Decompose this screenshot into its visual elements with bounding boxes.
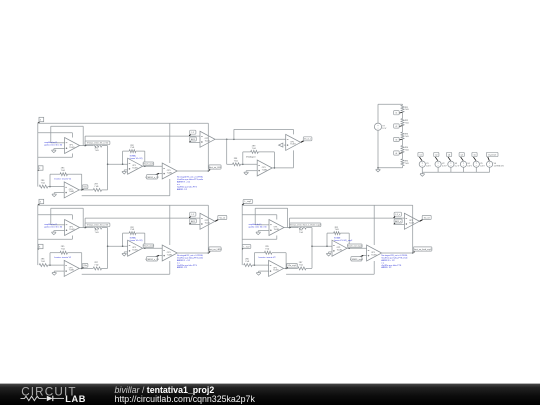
resistor R12	[93, 226, 102, 229]
wire A3 fb left	[254, 208, 256, 225]
op-amp OP13	[269, 220, 284, 236]
wire top rail	[38, 122, 209, 124]
svg-text:7 kΩ: 7 kΩ	[130, 147, 135, 149]
svg-text:TL081: TL081	[132, 250, 137, 252]
wire ladder seg5	[402, 153, 404, 159]
resistor R33	[298, 267, 306, 270]
wire R3 to sum	[102, 189, 108, 191]
wire C plus	[54, 192, 64, 194]
wire A2 plus	[54, 230, 65, 232]
net label V2o2	[82, 263, 88, 268]
wire left rail	[37, 123, 39, 186]
resistor RL5	[401, 159, 404, 166]
wire U43 supply rail	[412, 205, 414, 253]
logo resistor squiggle	[21, 396, 47, 400]
ground GND super	[244, 171, 249, 175]
wire sum tap 2	[108, 245, 128, 247]
wire U5 V- a	[169, 179, 171, 196]
svg-text:7 kΩ: 7 kΩ	[265, 248, 270, 250]
wire A3 Vminus stub	[276, 236, 278, 240]
ground GND A3	[256, 231, 261, 235]
wire U4 plus	[190, 141, 201, 143]
svg-text:7 kΩ: 7 kΩ	[405, 150, 410, 152]
wire C3 fb top a	[254, 252, 264, 254]
wire B fb left	[122, 151, 124, 164]
wire C3 out	[284, 267, 298, 269]
junction sum 2	[107, 245, 109, 247]
net label flag s3	[447, 152, 452, 160]
svg-text:Vmeas_entre_Vout_e_Vout2_sup2: Vmeas_entre_Vout_e_Vout2_sup2	[290, 224, 322, 227]
wire V+ feed A2	[38, 214, 73, 216]
wire C3 fb top b	[272, 252, 286, 254]
wire C3 fb left	[253, 253, 255, 265]
annotation note big2	[177, 254, 204, 269]
op-amp OP12	[65, 220, 80, 236]
net label L_MES2	[145, 255, 159, 261]
ground GND B	[122, 170, 127, 174]
wire sum tap	[108, 163, 128, 165]
ground GND A2	[52, 231, 57, 235]
svg-text:TL081: TL081	[167, 172, 172, 174]
wire A Vminus stub	[71, 154, 73, 158]
junction C2 out	[81, 268, 83, 270]
junction C3 in	[254, 264, 256, 266]
wire B3 fb left	[326, 233, 328, 246]
wire A inv input	[51, 142, 65, 144]
wire ladder seg2	[402, 112, 404, 118]
wire s2 top	[437, 160, 439, 162]
junction C in	[49, 186, 51, 188]
resistor Rin2	[39, 264, 48, 267]
wire V7 top	[377, 104, 379, 123]
svg-text:LAB: LAB	[65, 394, 86, 404]
op-amp OP4	[200, 131, 215, 147]
wire U4 out to U6	[215, 138, 286, 140]
wire U5 out	[177, 170, 208, 172]
svg-text:L_MES1_e_V3: L_MES1_e_V3	[145, 259, 159, 261]
op-amp OP23	[332, 240, 347, 256]
svg-text:7 kΩ: 7 kΩ	[299, 265, 304, 267]
svg-text:7 kΩ: 7 kΩ	[95, 232, 100, 234]
svg-text:ABRIR: 1/2: ABRIR: 1/2	[177, 266, 188, 269]
wire A3 out	[284, 227, 298, 229]
junction A3 out	[289, 227, 291, 229]
svg-text:7 kΩ: 7 kΩ	[234, 160, 239, 162]
annotation note big	[177, 176, 204, 191]
svg-text:7 kΩ: 7 kΩ	[335, 229, 340, 231]
wire A2 inv input	[51, 224, 65, 226]
wire sum rail 2	[107, 228, 109, 269]
wire V7 bottom	[377, 130, 379, 168]
svg-text:7 kΩ: 7 kΩ	[245, 261, 250, 263]
wire C3 plus	[259, 270, 269, 272]
wire B3 fb top b	[340, 232, 349, 234]
wire s2 bottom	[437, 168, 439, 173]
wire s6 bottom	[489, 168, 491, 173]
junction C out	[81, 189, 83, 191]
junction B3 in	[326, 245, 328, 247]
wire B2 fb top b	[136, 232, 145, 234]
svg-text:7 kΩ: 7 kΩ	[130, 229, 135, 231]
wire A2 fb right	[82, 208, 84, 227]
svg-text:7 kΩ: 7 kΩ	[41, 261, 46, 263]
wire super input drop	[226, 139, 228, 164]
wire ladder bottom	[378, 167, 403, 169]
wire U53 out	[382, 252, 413, 254]
svg-text:Vo_s2: Vo_s2	[220, 217, 226, 219]
net label flagL1	[189, 130, 196, 136]
resistor R1	[93, 144, 102, 147]
svg-text:Vmidsuper: Vmidsuper	[246, 157, 256, 159]
svg-text:Vsum_out2: Vsum_out2	[143, 244, 154, 247]
svg-text:7 kΩ: 7 kΩ	[252, 148, 257, 150]
svg-text:TL081: TL081	[205, 223, 210, 225]
svg-text:TL081: TL081	[274, 229, 279, 231]
wire sum tap 3	[312, 245, 332, 247]
junction A2 out	[84, 227, 86, 229]
svg-text:7 kΩ: 7 kΩ	[405, 163, 410, 165]
svg-text:ABRIR: 1/2: ABRIR: 1/2	[177, 188, 188, 191]
wire U52 V+	[169, 205, 171, 245]
net label Vout3	[413, 247, 432, 253]
svg-text:TL081: TL081	[337, 250, 342, 252]
wire R33 to sum	[306, 267, 312, 269]
wire super fb right	[273, 152, 275, 168]
svg-text:Vout_no_load_sup2: Vout_no_load_sup2	[414, 248, 433, 251]
wire U42 plus	[190, 223, 201, 225]
svg-text:ganho entre 30 e 30: ganho entre 30 e 30	[249, 226, 268, 229]
wire top rail 2	[38, 204, 209, 206]
wire A plus	[54, 148, 65, 150]
op-amp OP32	[162, 245, 177, 261]
resistor RF	[129, 150, 136, 153]
wire B fb right	[144, 151, 146, 166]
wire A up	[84, 136, 86, 146]
net label flag s5	[472, 152, 477, 160]
net label Vsum	[143, 162, 154, 166]
resistor RF2	[129, 232, 136, 235]
wire A2 Vminus return	[38, 238, 73, 240]
svg-text:Vo_s3: Vo_s3	[424, 217, 430, 219]
op-amp OP3	[162, 163, 177, 179]
wire s1 bottom	[421, 168, 423, 173]
wire B3 plus	[329, 251, 332, 253]
wire A Vminus return	[38, 156, 73, 158]
resistor Rf2	[60, 251, 68, 254]
resistor Rb	[251, 150, 259, 153]
svg-text:1.29936 mV: 1.29936 mV	[494, 165, 505, 167]
svg-text:TL081: TL081	[69, 147, 74, 149]
wire C2 plus	[54, 270, 64, 272]
net label Vmeas2	[85, 223, 110, 227]
net label Vmeas3	[290, 223, 322, 227]
junction B2 out	[144, 247, 146, 249]
net label Vsum2	[143, 244, 154, 248]
net label flagL12	[189, 212, 196, 218]
wire B fb top a	[123, 150, 130, 152]
net label flagAR3	[394, 219, 402, 224]
wire C2 fb top a	[50, 252, 60, 254]
wire A2 fb top	[51, 207, 83, 209]
svg-text:TL081: TL081	[167, 254, 172, 256]
svg-text:7 kΩ: 7 kΩ	[405, 136, 410, 138]
input port arrow	[279, 143, 283, 147]
voltage source V1 src	[419, 161, 431, 167]
net label flag IN3	[242, 200, 253, 206]
wire U52 out	[177, 252, 208, 254]
wire C fb right	[81, 174, 83, 190]
wire s4 bottom	[463, 168, 465, 173]
wire ladder seg3	[402, 126, 404, 133]
wire U52 plus	[159, 254, 162, 256]
wire sum rail	[107, 146, 109, 190]
op-amp OP7 out	[286, 134, 301, 150]
wire Rin to C	[48, 186, 64, 188]
node flag flag INV	[38, 166, 43, 171]
junction U53 out	[412, 252, 414, 254]
svg-text:7 kΩ: 7 kΩ	[95, 150, 100, 152]
wire U53 V+	[373, 205, 375, 245]
voltage source V6 src	[487, 161, 505, 167]
wire U5 V+	[169, 123, 171, 163]
wire C2 fb right	[81, 253, 83, 269]
svg-text:TL081: TL081	[290, 144, 295, 146]
voltage source V5 src	[473, 161, 485, 167]
wire A3 fb top	[255, 207, 287, 209]
wire A fb left	[50, 126, 52, 143]
wire B out	[143, 165, 163, 167]
junction sum 3	[311, 245, 313, 247]
wire B3 out	[347, 247, 367, 249]
wire A3 up	[289, 218, 291, 228]
svg-text:0.3 V: 0.3 V	[442, 165, 447, 167]
wire C2 fb top b	[68, 252, 82, 254]
annotation note buf3	[249, 224, 268, 229]
svg-text:Vmeas_entre_V2_e_V3: Vmeas_entre_V2_e_V3	[87, 224, 109, 227]
wire left rail 3	[241, 205, 243, 265]
op-amp OP53	[269, 260, 284, 276]
svg-text:0.2 V: 0.2 V	[455, 165, 460, 167]
net label Vout2	[208, 247, 222, 253]
wire super in b	[241, 163, 258, 165]
annotation note buf	[44, 142, 63, 147]
wire B2 out	[143, 247, 163, 249]
op-amp OP42	[200, 213, 215, 229]
svg-text:Inverter: inverte V2: Inverter: inverte V2	[259, 256, 277, 259]
ground GND ladder	[376, 168, 381, 172]
footer bar	[0, 384, 540, 405]
annotation note inv	[54, 177, 72, 180]
net label flagAR	[190, 137, 197, 142]
junction C2 in	[49, 264, 51, 266]
resistor RL1	[401, 105, 404, 112]
wire sources rail	[422, 171, 489, 173]
wire s5 top	[475, 160, 477, 162]
net label Vmeas	[85, 141, 110, 145]
wire A2 up	[84, 218, 86, 228]
svg-text:Vsum_out1: Vsum_out1	[143, 162, 154, 165]
wire A2 out	[80, 227, 94, 229]
svg-text:Vo_w_L: Vo_w_L	[304, 139, 312, 141]
svg-text:7 kΩ: 7 kΩ	[41, 182, 46, 184]
svg-text:TL081: TL081	[371, 254, 376, 256]
svg-text:Vout_no_LED: Vout_no_LED	[209, 166, 222, 169]
svg-text:TL081: TL081	[69, 229, 74, 231]
svg-text:TL081: TL081	[132, 168, 137, 170]
net label flagAR2	[190, 219, 197, 224]
net label L_MES3	[350, 255, 364, 261]
svg-text:Vout_no_LED2: Vout_no_LED2	[208, 248, 222, 251]
net label flag s4	[459, 152, 464, 160]
net label flag s1	[418, 152, 423, 160]
wire super fb left	[242, 152, 244, 164]
wire V+ stub A2	[71, 215, 73, 220]
resistor R13	[298, 226, 307, 229]
net label tap t4	[394, 151, 403, 155]
wire A fb top	[51, 125, 83, 127]
wire A3 inv input	[255, 224, 269, 226]
wire s3 bottom	[450, 168, 452, 173]
ground GND A	[52, 149, 57, 153]
wire A2 Vminus stub	[71, 236, 73, 240]
wire U6 V+ stub	[292, 129, 294, 134]
wire V+ feed A	[38, 132, 73, 134]
wire B2 fb left	[122, 233, 124, 246]
svg-text:Vmeas_entre_V1_e_V2: Vmeas_entre_V1_e_V2	[87, 142, 109, 145]
ground GND sources	[420, 172, 425, 176]
resistor Rin3	[244, 264, 253, 267]
annotation note inv2	[54, 256, 72, 259]
wire V+ link top	[234, 128, 294, 130]
resistor RL3	[401, 132, 404, 139]
net label flag INV3	[242, 245, 251, 250]
wire A2 fb left	[50, 208, 52, 225]
junction super in	[226, 139, 228, 141]
wire A3 fb right	[287, 208, 289, 227]
wire B3 fb right	[348, 233, 350, 248]
net label flag s2	[434, 152, 439, 160]
svg-text:TL081: TL081	[69, 191, 74, 193]
wire U6 plus	[284, 144, 286, 146]
resistor R32	[93, 267, 101, 270]
svg-text:0.3 V: 0.3 V	[467, 165, 472, 167]
junction A out	[84, 145, 86, 147]
wire U53 V- b	[286, 273, 374, 275]
wire A out	[80, 145, 94, 147]
wire ladder seg4	[402, 139, 404, 146]
svg-text:ganho entre 30 e 30: ganho entre 30 e 30	[44, 226, 63, 229]
junction U5 out	[208, 170, 210, 172]
svg-text:Vsum_out_sup2: Vsum_out_sup2	[348, 244, 363, 247]
op-amp OP2	[128, 158, 143, 174]
wire C fb top a	[50, 173, 60, 175]
net label V2o3	[287, 263, 298, 268]
wire super in a	[227, 163, 233, 165]
wire ladder seg1	[402, 103, 404, 106]
wire Rin3 to C	[252, 264, 268, 266]
wire C fb top b	[68, 173, 82, 175]
logo diode	[47, 396, 53, 401]
resistor Ra	[233, 163, 241, 166]
wire C out	[79, 189, 93, 191]
svg-text:ganho entre 30 e 30: ganho entre 30 e 30	[44, 144, 63, 147]
wire V+ link up	[233, 129, 235, 139]
resistor RL4	[401, 146, 404, 153]
junction B2 in	[122, 245, 124, 247]
svg-text:7 kΩ: 7 kΩ	[61, 170, 66, 172]
svg-text:7 kΩ: 7 kΩ	[299, 232, 304, 234]
voltage source V3 src	[448, 161, 460, 167]
net label Vout	[209, 165, 222, 171]
svg-text:TL081: TL081	[69, 270, 74, 272]
wire R1 to sum	[102, 145, 108, 147]
wire top rail 3	[242, 204, 413, 206]
net label Vout_w_L	[301, 137, 312, 143]
wire A3 Vminus return	[242, 238, 277, 240]
wire s5 bottom	[475, 168, 477, 173]
wire A3 to drvr	[290, 217, 405, 219]
wire s6 top	[489, 160, 491, 162]
wire U43 plus	[394, 223, 405, 225]
svg-text:Inverter: inverte V2: Inverter: inverte V2	[54, 177, 72, 180]
annotation note soma3	[334, 237, 353, 243]
wire A2 to drvr	[85, 217, 200, 219]
svg-text:7 kΩ: 7 kΩ	[94, 186, 99, 188]
ground GND B3	[326, 252, 331, 256]
wire s4 top	[463, 160, 465, 162]
wire U5 plus	[159, 172, 162, 174]
net label Vsum3	[348, 244, 363, 248]
junction super fb	[242, 164, 244, 166]
svg-text:TL081: TL081	[205, 141, 210, 143]
junction super out	[274, 167, 276, 169]
wire V+ feed A3	[242, 214, 277, 216]
net label tap t3	[394, 137, 403, 141]
svg-text:AR1_s: AR1_s	[395, 220, 401, 223]
wire A to drvr	[85, 135, 200, 137]
voltage source V7	[374, 123, 387, 130]
op-amp OP52	[64, 260, 79, 276]
wire super fb top a	[243, 151, 251, 153]
voltage source V4 src	[460, 161, 472, 167]
wire V+ stub A3	[276, 215, 278, 220]
junction U52 out	[208, 252, 210, 254]
svg-text:TL081: TL081	[409, 223, 414, 225]
op-amp OP1	[65, 138, 80, 154]
wire U53 V- a	[373, 261, 375, 274]
ground GND C2	[52, 271, 57, 275]
net label VoutD3	[420, 215, 432, 221]
wire B2 fb right	[144, 233, 146, 248]
ground GND C3	[256, 271, 261, 275]
annotation note buf2	[44, 224, 63, 229]
wire s1 top	[421, 160, 423, 162]
wire C fb left	[49, 174, 51, 186]
svg-text:L_sup2: L_sup2	[245, 201, 252, 203]
junction B in	[122, 163, 124, 165]
junction C3 out	[285, 268, 287, 270]
wire B2 plus	[124, 251, 127, 253]
svg-text:L_MES1_sup2: L_MES1_sup2	[350, 259, 364, 261]
wire ladder seg6	[402, 166, 404, 168]
wire ladder top	[378, 103, 403, 105]
svg-text:ABRIR: 1/2: ABRIR: 1/2	[381, 266, 392, 269]
wire U42 supply rail	[207, 205, 209, 253]
ground GND C	[52, 193, 57, 197]
junction sum	[107, 163, 109, 165]
svg-text:12 V: 12 V	[382, 128, 387, 130]
annotation note inv3	[259, 256, 277, 259]
